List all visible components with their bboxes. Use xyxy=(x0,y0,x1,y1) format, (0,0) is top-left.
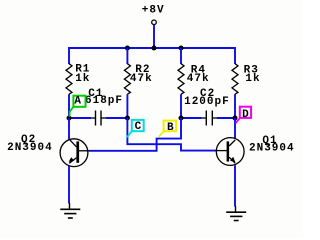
wire R4 bottom to node B xyxy=(180,94,182,118)
node B flag xyxy=(159,121,176,137)
wire C2 to node D xyxy=(217,117,235,119)
node D flag xyxy=(236,107,251,124)
resistor R4 xyxy=(180,48,182,64)
svg-text:1200pF: 1200pF xyxy=(184,96,230,108)
wire node A to C1 xyxy=(69,117,91,119)
junction node A xyxy=(67,116,72,121)
junction node C xyxy=(125,116,130,121)
resistor R1 xyxy=(66,64,72,94)
svg-text:2N3904: 2N3904 xyxy=(249,143,295,155)
wire node D to Q1 collector xyxy=(234,118,236,138)
ground below Q1 xyxy=(226,206,246,221)
svg-text:D: D xyxy=(242,109,249,121)
wire R2 bottom to node C xyxy=(126,94,128,118)
ground below Q2 xyxy=(60,203,80,218)
wire Q2 emitter to ground xyxy=(68,166,70,204)
capacitor C1 xyxy=(85,88,123,125)
svg-text:47k: 47k xyxy=(130,73,153,85)
junction node D xyxy=(233,116,238,121)
wire node B to Q2 base xyxy=(89,118,181,151)
node C flag xyxy=(126,120,144,137)
junction node B xyxy=(179,116,184,121)
svg-text:C: C xyxy=(135,121,142,133)
resistor R3 xyxy=(232,64,238,94)
svg-text:47k: 47k xyxy=(187,73,210,85)
node A flag xyxy=(69,96,85,117)
wire C1 to node C xyxy=(106,117,127,119)
wire node C to Q1 base xyxy=(127,118,216,151)
svg-text:+8V: +8V xyxy=(142,4,165,16)
power terminal circle xyxy=(152,20,157,25)
wire Q1 emitter to ground xyxy=(234,165,236,206)
wire R1 bottom to node A xyxy=(68,94,70,118)
svg-text:2N3904: 2N3904 xyxy=(7,142,53,154)
junction dot bus-R2 xyxy=(125,46,130,51)
junction dot bus-R4 xyxy=(179,46,184,51)
transistor Q2 xyxy=(7,134,89,167)
wire from +8V terminal to bus xyxy=(153,25,155,48)
capacitor C2 xyxy=(184,88,230,125)
wire node B to C2 xyxy=(181,117,202,119)
resistor R2 xyxy=(126,48,128,64)
transistor Q1 xyxy=(216,135,294,166)
svg-text:1k: 1k xyxy=(75,73,90,85)
wire top bus xyxy=(69,48,235,64)
wire node A to Q2 collector xyxy=(68,118,70,140)
svg-text:1k: 1k xyxy=(245,73,260,85)
wire R3 bottom to node D xyxy=(234,94,236,118)
junction dot bus-power xyxy=(152,46,157,51)
svg-text:B: B xyxy=(167,122,174,134)
svg-text:A: A xyxy=(74,96,81,108)
svg-text:618pF: 618pF xyxy=(85,95,123,107)
